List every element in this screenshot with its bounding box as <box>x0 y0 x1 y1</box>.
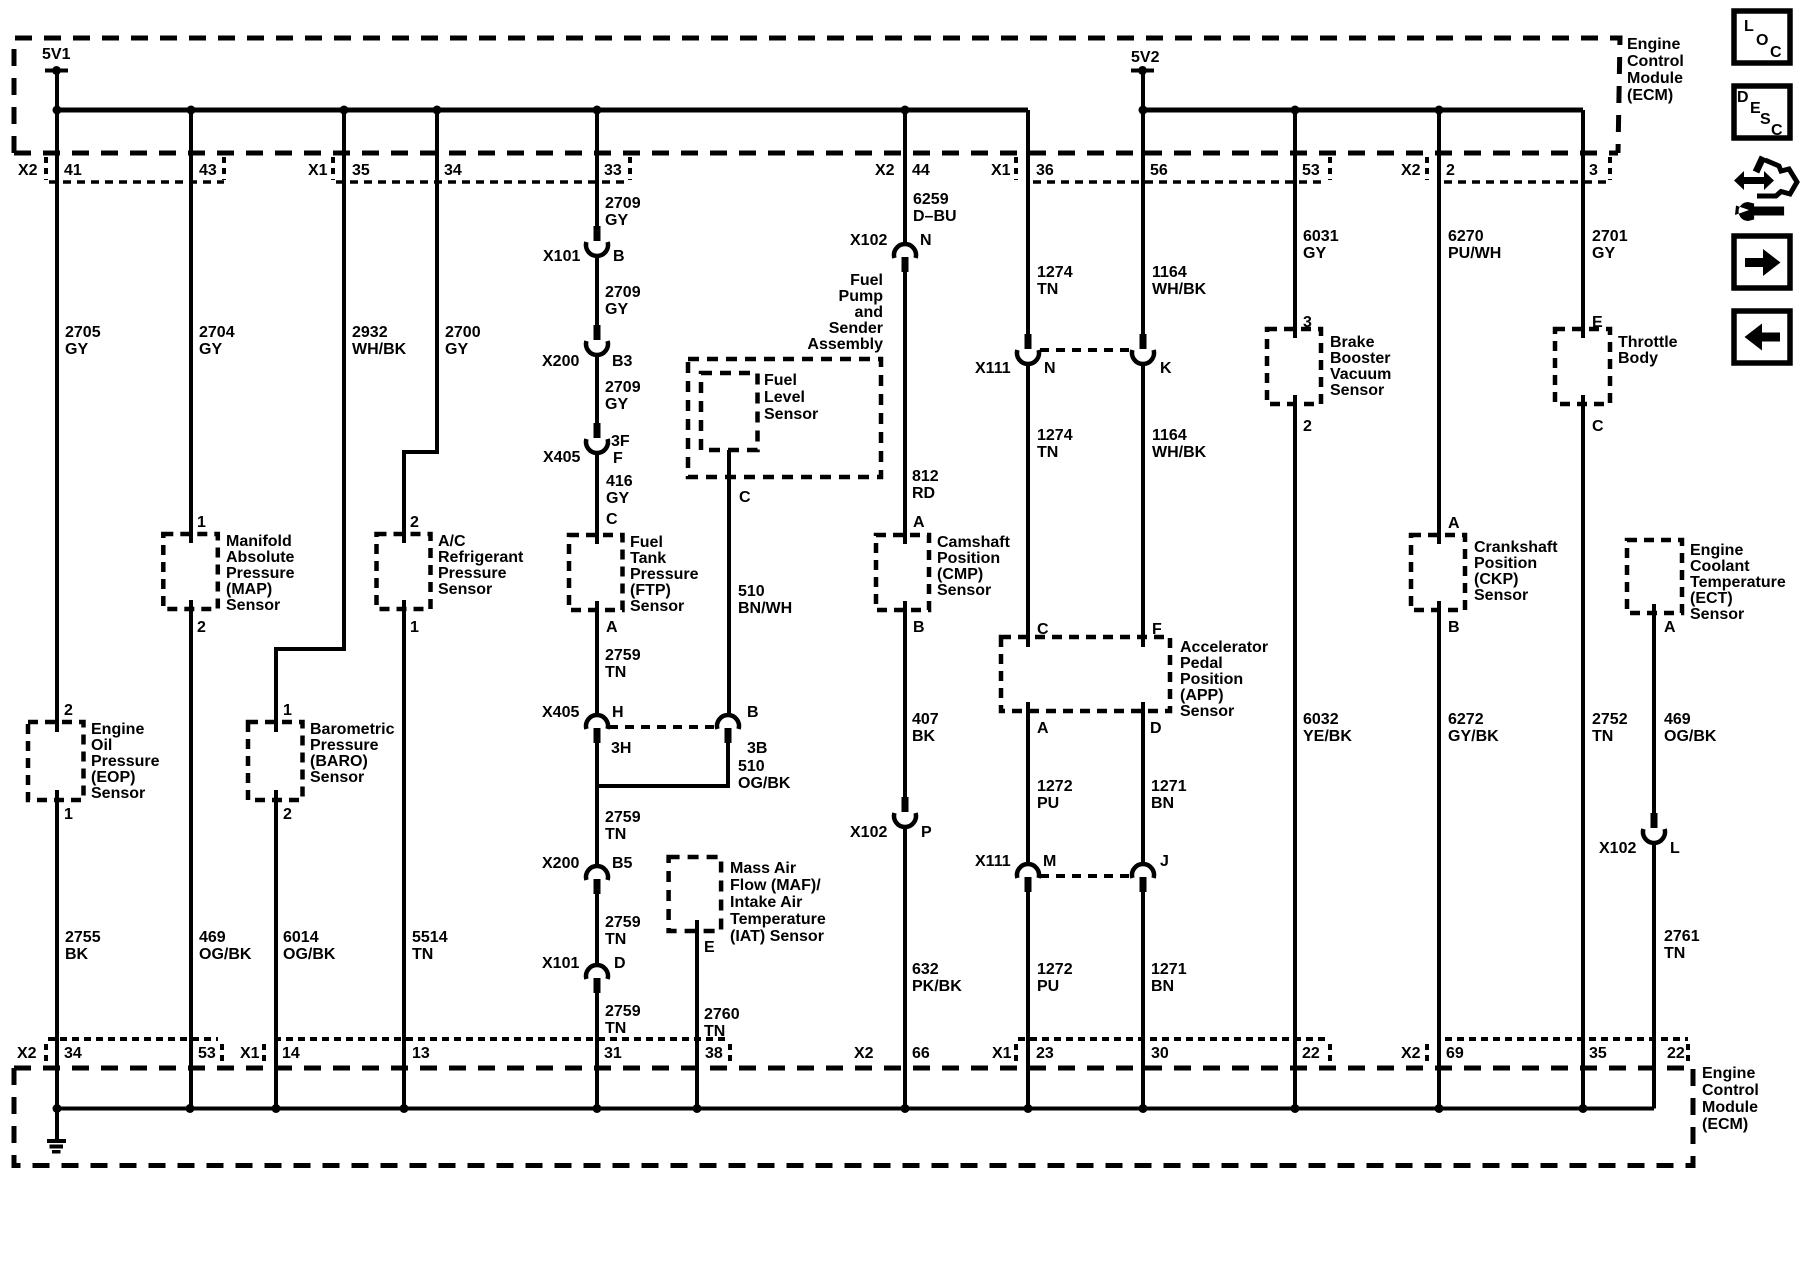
svg-text:GY: GY <box>1592 245 1615 262</box>
icon: right arrow box <box>1734 236 1790 288</box>
junction dot <box>1435 1104 1444 1113</box>
ECM top box <box>14 38 1620 153</box>
svg-text:1272: 1272 <box>1037 778 1073 795</box>
svg-text:2: 2 <box>283 806 292 823</box>
svg-text:2709: 2709 <box>605 195 641 212</box>
top connector strip fine dashes <box>49 180 1612 184</box>
svg-text:A: A <box>913 514 925 531</box>
svg-text:36: 36 <box>1036 162 1054 179</box>
svg-text:469: 469 <box>199 929 226 946</box>
svg-text:407: 407 <box>912 711 939 728</box>
junction dot <box>187 106 196 115</box>
svg-text:A: A <box>1037 720 1049 737</box>
svg-text:Sensor: Sensor <box>630 598 684 615</box>
svg-text:2: 2 <box>1446 162 1455 179</box>
svg-text:Tank: Tank <box>630 550 666 567</box>
svg-text:X111: X111 <box>975 360 1011 377</box>
bottom bus <box>57 1107 1654 1111</box>
junction dot <box>901 1104 910 1113</box>
svg-text:Pressure: Pressure <box>438 565 507 582</box>
svg-text:X1: X1 <box>308 162 328 179</box>
MAP sensor box <box>163 534 218 609</box>
svg-text:D: D <box>1150 720 1162 737</box>
svg-text:Fuel: Fuel <box>850 272 883 289</box>
svg-text:B: B <box>1448 619 1460 636</box>
svg-text:PU/WH: PU/WH <box>1448 245 1501 262</box>
fuel level sensor wire C <box>727 450 731 716</box>
svg-text:Intake Air: Intake Air <box>730 894 802 911</box>
svg-text:Position: Position <box>1474 555 1537 572</box>
svg-text:2704: 2704 <box>199 324 235 341</box>
svg-text:35: 35 <box>352 162 370 179</box>
junction dot <box>693 1104 702 1113</box>
svg-text:X405: X405 <box>542 704 579 721</box>
svg-text:BK: BK <box>65 946 89 963</box>
svg-text:66: 66 <box>912 1045 930 1062</box>
svg-text:Pump: Pump <box>839 288 884 305</box>
svg-text:E: E <box>704 939 715 956</box>
svg-text:6270: 6270 <box>1448 228 1484 245</box>
svg-text:13: 13 <box>412 1045 430 1062</box>
svg-text:OG/BK: OG/BK <box>738 775 791 792</box>
svg-text:Coolant: Coolant <box>1690 558 1750 575</box>
brake booster vacuum sensor box <box>1267 329 1321 404</box>
CKP sensor box <box>1411 535 1465 610</box>
svg-text:OG/BK: OG/BK <box>1664 728 1717 745</box>
wire 36: APP signal C <box>1026 110 1030 1109</box>
svg-text:Fuel: Fuel <box>764 372 797 389</box>
svg-text:Booster: Booster <box>1330 350 1390 367</box>
wire 3: throttle body <box>1581 110 1585 1109</box>
svg-text:30: 30 <box>1151 1045 1169 1062</box>
svg-text:43: 43 <box>199 162 217 179</box>
svg-text:D: D <box>614 955 626 972</box>
svg-text:44: 44 <box>912 162 930 179</box>
svg-text:Pressure: Pressure <box>310 737 379 754</box>
svg-text:Pressure: Pressure <box>630 566 699 583</box>
svg-text:2752: 2752 <box>1592 711 1628 728</box>
svg-text:YE/BK: YE/BK <box>1303 728 1352 745</box>
svg-text:P: P <box>921 824 932 841</box>
junction dot <box>1579 1104 1588 1113</box>
svg-text:D–BU: D–BU <box>913 208 957 225</box>
svg-text:5V1: 5V1 <box>42 46 71 63</box>
svg-text:A: A <box>1664 619 1676 636</box>
svg-text:(BARO): (BARO) <box>310 753 368 770</box>
svg-text:GY: GY <box>605 212 628 229</box>
svg-text:2759: 2759 <box>605 809 641 826</box>
svg-text:TN: TN <box>1037 444 1058 461</box>
fuel level sensor box <box>701 373 758 450</box>
svg-text:Throttle: Throttle <box>1618 334 1678 351</box>
svg-text:6032: 6032 <box>1303 711 1339 728</box>
wire <box>55 71 59 111</box>
svg-text:23: 23 <box>1036 1045 1054 1062</box>
svg-text:OG/BK: OG/BK <box>283 946 336 963</box>
svg-text:Engine: Engine <box>91 721 144 738</box>
ECM box dashed edge <box>14 1068 1693 1166</box>
svg-text:X1: X1 <box>240 1045 260 1062</box>
svg-text:TN: TN <box>605 1020 626 1037</box>
wire 35: BARO circuit <box>276 110 344 1109</box>
svg-text:Sender: Sender <box>829 320 883 337</box>
wire 53: brake booster vacuum sensor <box>1293 110 1297 1109</box>
svg-text:53: 53 <box>198 1045 216 1062</box>
svg-text:6272: 6272 <box>1448 711 1484 728</box>
wire 56: APP signal F <box>1141 110 1145 1109</box>
svg-text:Sensor: Sensor <box>1474 587 1528 604</box>
svg-text:14: 14 <box>282 1045 300 1062</box>
svg-text:2700: 2700 <box>445 324 481 341</box>
wire <box>45 69 68 73</box>
svg-text:Control: Control <box>1702 1082 1759 1099</box>
svg-text:Sensor: Sensor <box>1180 703 1234 720</box>
svg-text:Sensor: Sensor <box>91 785 145 802</box>
svg-text:A/C: A/C <box>438 533 466 550</box>
svg-text:3: 3 <box>1589 162 1598 179</box>
svg-text:Sensor: Sensor <box>1330 382 1384 399</box>
svg-text:L: L <box>1744 18 1754 35</box>
svg-text:2761: 2761 <box>1664 928 1700 945</box>
svg-text:BN/WH: BN/WH <box>738 600 792 617</box>
svg-text:C: C <box>739 489 751 506</box>
svg-text:A: A <box>1448 515 1460 532</box>
svg-text:D: D <box>1737 89 1749 106</box>
wire from X405 B down and left to main wire <box>597 742 728 786</box>
svg-text:PU: PU <box>1037 978 1059 995</box>
junction dot <box>186 1104 195 1113</box>
svg-text:BN: BN <box>1151 795 1174 812</box>
X111 top bridge <box>1040 348 1131 352</box>
svg-text:X2: X2 <box>17 1045 37 1062</box>
svg-text:C: C <box>1770 44 1782 61</box>
svg-text:TN: TN <box>605 826 626 843</box>
svg-text:(EOP): (EOP) <box>91 769 135 786</box>
wire <box>1141 71 1145 111</box>
svg-text:X101: X101 <box>543 248 580 265</box>
svg-text:X101: X101 <box>542 955 579 972</box>
svg-text:Control: Control <box>1627 53 1684 70</box>
svg-text:TN: TN <box>1037 281 1058 298</box>
svg-text:1271: 1271 <box>1151 961 1187 978</box>
svg-text:Flow (MAF)/: Flow (MAF)/ <box>730 877 821 894</box>
MAF wire E <box>695 920 699 1109</box>
svg-text:3H: 3H <box>611 740 631 757</box>
svg-text:2: 2 <box>197 619 206 636</box>
svg-text:PK/BK: PK/BK <box>912 978 962 995</box>
junction dot <box>1291 1104 1300 1113</box>
svg-text:Vacuum: Vacuum <box>1330 366 1391 383</box>
junction dot <box>53 1104 62 1113</box>
svg-text:(FTP): (FTP) <box>630 582 671 599</box>
svg-text:TN: TN <box>605 931 626 948</box>
svg-text:Pressure: Pressure <box>226 565 295 582</box>
svg-text:Barometric: Barometric <box>310 721 395 738</box>
svg-text:69: 69 <box>1446 1045 1464 1062</box>
svg-text:2759: 2759 <box>605 914 641 931</box>
svg-text:Sensor: Sensor <box>438 581 492 598</box>
svg-text:(ECT): (ECT) <box>1690 590 1733 607</box>
svg-text:TN: TN <box>1664 945 1685 962</box>
EOP sensor box <box>28 722 84 800</box>
X405 bridge dashed <box>609 725 717 729</box>
svg-text:1164: 1164 <box>1152 264 1187 281</box>
svg-text:34: 34 <box>64 1045 82 1062</box>
svg-text:1: 1 <box>410 619 419 636</box>
junction dot <box>1139 106 1148 115</box>
connector X200 pin B3 <box>586 325 608 355</box>
junction dot <box>340 106 349 115</box>
connector X200 pin B5 <box>586 866 608 894</box>
svg-text:Manifold: Manifold <box>226 533 292 550</box>
svg-text:X405: X405 <box>543 449 580 466</box>
svg-text:RD: RD <box>912 485 935 502</box>
svg-text:Level: Level <box>764 389 805 406</box>
svg-text:S: S <box>1760 111 1771 128</box>
svg-text:34: 34 <box>444 162 462 179</box>
connector X111 pin M <box>1017 864 1039 892</box>
svg-text:33: 33 <box>604 162 622 179</box>
svg-text:TN: TN <box>1592 728 1613 745</box>
svg-text:B: B <box>913 619 925 636</box>
svg-text:5V2: 5V2 <box>1131 49 1160 66</box>
svg-text:Temperature: Temperature <box>730 911 826 928</box>
svg-text:GY: GY <box>199 341 222 358</box>
svg-text:Sensor: Sensor <box>937 582 991 599</box>
svg-text:2: 2 <box>1303 418 1312 435</box>
connector X111 pin N <box>1017 334 1039 364</box>
svg-text:GY: GY <box>605 396 628 413</box>
svg-text:X2: X2 <box>1401 162 1421 179</box>
top strip separators <box>46 157 1610 180</box>
svg-text:2759: 2759 <box>605 647 641 664</box>
svg-text:Absolute: Absolute <box>226 549 295 566</box>
svg-text:510: 510 <box>738 583 765 600</box>
svg-text:C: C <box>1592 418 1604 435</box>
ECT wire <box>1652 604 1656 1109</box>
svg-text:X200: X200 <box>542 353 579 370</box>
svg-text:Brake: Brake <box>1330 334 1375 351</box>
svg-text:X2: X2 <box>875 162 895 179</box>
svg-text:M: M <box>1043 853 1056 870</box>
svg-text:(APP): (APP) <box>1180 687 1224 704</box>
svg-text:22: 22 <box>1667 1045 1685 1062</box>
svg-text:J: J <box>1160 853 1169 870</box>
svg-text:X2: X2 <box>18 162 38 179</box>
svg-text:Crankshaft: Crankshaft <box>1474 539 1558 556</box>
svg-text:2709: 2709 <box>605 379 641 396</box>
connector X111 pin J <box>1132 864 1154 892</box>
svg-text:GY: GY <box>606 490 629 507</box>
svg-text:2705: 2705 <box>65 324 101 341</box>
svg-text:L: L <box>1670 840 1680 857</box>
svg-text:Engine: Engine <box>1690 542 1743 559</box>
junction dot <box>1291 106 1300 115</box>
svg-text:469: 469 <box>1664 711 1691 728</box>
svg-text:GY: GY <box>605 301 628 318</box>
svg-text:BN: BN <box>1151 978 1174 995</box>
wire 43: MAP circuit <box>189 110 193 1109</box>
svg-text:X1: X1 <box>992 1045 1012 1062</box>
svg-text:(ECM): (ECM) <box>1702 1116 1748 1133</box>
svg-text:Sensor: Sensor <box>1690 606 1744 623</box>
svg-text:GY: GY <box>65 341 88 358</box>
bus 1 <box>57 108 1028 113</box>
junction dot <box>1024 1104 1033 1113</box>
connector X101 pin D <box>586 965 608 993</box>
connector X111 pin K <box>1132 334 1154 364</box>
svg-text:Sensor: Sensor <box>226 597 280 614</box>
svg-text:(MAP): (MAP) <box>226 581 272 598</box>
svg-text:632: 632 <box>912 961 939 978</box>
svg-text:2709: 2709 <box>605 284 641 301</box>
svg-text:1: 1 <box>283 702 292 719</box>
svg-text:GY: GY <box>1303 245 1326 262</box>
svg-text:Fuel: Fuel <box>630 534 663 551</box>
svg-text:BK: BK <box>912 728 936 745</box>
junction dot <box>433 106 442 115</box>
svg-text:WH/BK: WH/BK <box>1152 444 1207 461</box>
svg-text:5514: 5514 <box>412 929 448 946</box>
junction dot <box>593 106 602 115</box>
junction dot <box>1138 66 1147 75</box>
A/C refrigerant pressure sensor box <box>377 534 431 609</box>
svg-text:X2: X2 <box>854 1045 874 1062</box>
svg-text:B: B <box>747 704 759 721</box>
connector X102 pin N <box>894 244 916 272</box>
svg-text:2: 2 <box>410 514 419 531</box>
wire <box>1131 69 1154 73</box>
svg-text:TN: TN <box>412 946 433 963</box>
svg-text:1272: 1272 <box>1037 961 1073 978</box>
svg-text:Mass Air: Mass Air <box>730 860 796 877</box>
svg-text:B: B <box>613 248 625 265</box>
junction dot <box>53 106 62 115</box>
junction dot <box>52 66 61 75</box>
svg-text:C: C <box>606 511 618 528</box>
icon: DESC box <box>1734 86 1790 139</box>
svg-text:Module: Module <box>1627 70 1683 87</box>
FTP sensor box <box>569 535 623 610</box>
ECM box dashed edge <box>14 151 1618 156</box>
svg-text:6259: 6259 <box>913 191 949 208</box>
svg-text:Refrigerant: Refrigerant <box>438 549 524 566</box>
connector separators <box>46 1044 1688 1066</box>
connector X405 pin B (fuel level wire) <box>717 715 739 743</box>
svg-text:X102: X102 <box>1599 840 1636 857</box>
svg-text:6014: 6014 <box>283 929 319 946</box>
throttle body box <box>1555 329 1610 404</box>
svg-text:Temperature: Temperature <box>1690 574 1786 591</box>
svg-text:Camshaft: Camshaft <box>937 534 1011 551</box>
svg-text:Position: Position <box>937 550 1000 567</box>
CMP sensor box <box>876 535 929 610</box>
svg-text:2755: 2755 <box>65 929 101 946</box>
svg-text:X102: X102 <box>850 824 887 841</box>
X111 bottom bridge <box>1040 874 1131 878</box>
connector X101 pin B <box>586 226 608 256</box>
ECM bottom box <box>14 1066 1693 1071</box>
junction dot <box>272 1104 281 1113</box>
svg-text:GY: GY <box>445 341 468 358</box>
svg-text:F: F <box>613 450 623 467</box>
connector X102 pin P <box>894 797 916 827</box>
svg-text:2701: 2701 <box>1592 228 1628 245</box>
svg-text:WH/BK: WH/BK <box>1152 281 1207 298</box>
svg-text:(CMP): (CMP) <box>937 566 983 583</box>
APP sensor box <box>1001 637 1170 711</box>
svg-text:X102: X102 <box>850 232 887 249</box>
wire 34: A/C refrigerant pressure circuit <box>404 110 437 1109</box>
svg-text:OG/BK: OG/BK <box>199 946 252 963</box>
wire 44: CMP circuit <box>903 110 907 1109</box>
svg-text:B5: B5 <box>612 855 633 872</box>
bottom connector strip <box>48 1037 1688 1041</box>
svg-text:Pedal: Pedal <box>1180 655 1223 672</box>
junction dot <box>1139 1104 1148 1113</box>
MAF/IAT sensor box <box>669 857 722 931</box>
svg-text:1: 1 <box>197 514 206 531</box>
svg-text:31: 31 <box>604 1045 622 1062</box>
junction dot <box>593 1104 602 1113</box>
svg-text:H: H <box>612 704 624 721</box>
svg-text:and: and <box>855 304 883 321</box>
junction dot <box>1435 106 1444 115</box>
svg-text:PU: PU <box>1037 795 1059 812</box>
wire 33: FTP circuit <box>595 110 599 1109</box>
svg-text:2759: 2759 <box>605 1003 641 1020</box>
svg-text:N: N <box>920 232 932 249</box>
svg-text:Module: Module <box>1702 1099 1758 1116</box>
icon: LOC box <box>1734 11 1790 63</box>
connector X102 pin L <box>1643 813 1665 843</box>
svg-text:3F: 3F <box>611 433 630 450</box>
svg-text:22: 22 <box>1302 1045 1320 1062</box>
svg-text:Body: Body <box>1618 350 1658 367</box>
svg-text:6031: 6031 <box>1303 228 1339 245</box>
svg-text:Assembly: Assembly <box>807 336 883 353</box>
svg-text:2932: 2932 <box>352 324 388 341</box>
svg-text:Sensor: Sensor <box>764 406 818 423</box>
svg-text:1274: 1274 <box>1037 427 1073 444</box>
svg-text:3B: 3B <box>747 740 767 757</box>
bus 2 <box>1143 108 1583 113</box>
BARO sensor box <box>248 722 303 800</box>
svg-text:56: 56 <box>1150 162 1168 179</box>
svg-text:35: 35 <box>1589 1045 1607 1062</box>
ground <box>55 1109 59 1140</box>
svg-text:X111: X111 <box>975 853 1011 870</box>
ECT sensor box <box>1627 540 1682 613</box>
svg-text:N: N <box>1044 360 1056 377</box>
svg-text:O: O <box>1756 32 1768 49</box>
svg-text:B3: B3 <box>612 353 633 370</box>
svg-text:510: 510 <box>738 758 765 775</box>
junction dot <box>901 106 910 115</box>
svg-text:WH/BK: WH/BK <box>352 341 407 358</box>
svg-text:(ECM): (ECM) <box>1627 87 1673 104</box>
svg-text:Engine: Engine <box>1627 36 1680 53</box>
svg-text:38: 38 <box>705 1045 723 1062</box>
svg-text:X200: X200 <box>542 855 579 872</box>
svg-text:1: 1 <box>64 806 73 823</box>
svg-text:K: K <box>1160 360 1172 377</box>
svg-text:TN: TN <box>704 1023 725 1040</box>
svg-text:Oil: Oil <box>91 737 112 754</box>
wire 41: EOP circuit <box>55 110 59 1109</box>
svg-text:53: 53 <box>1302 162 1320 179</box>
wire 2: CKP circuit <box>1437 110 1441 1109</box>
